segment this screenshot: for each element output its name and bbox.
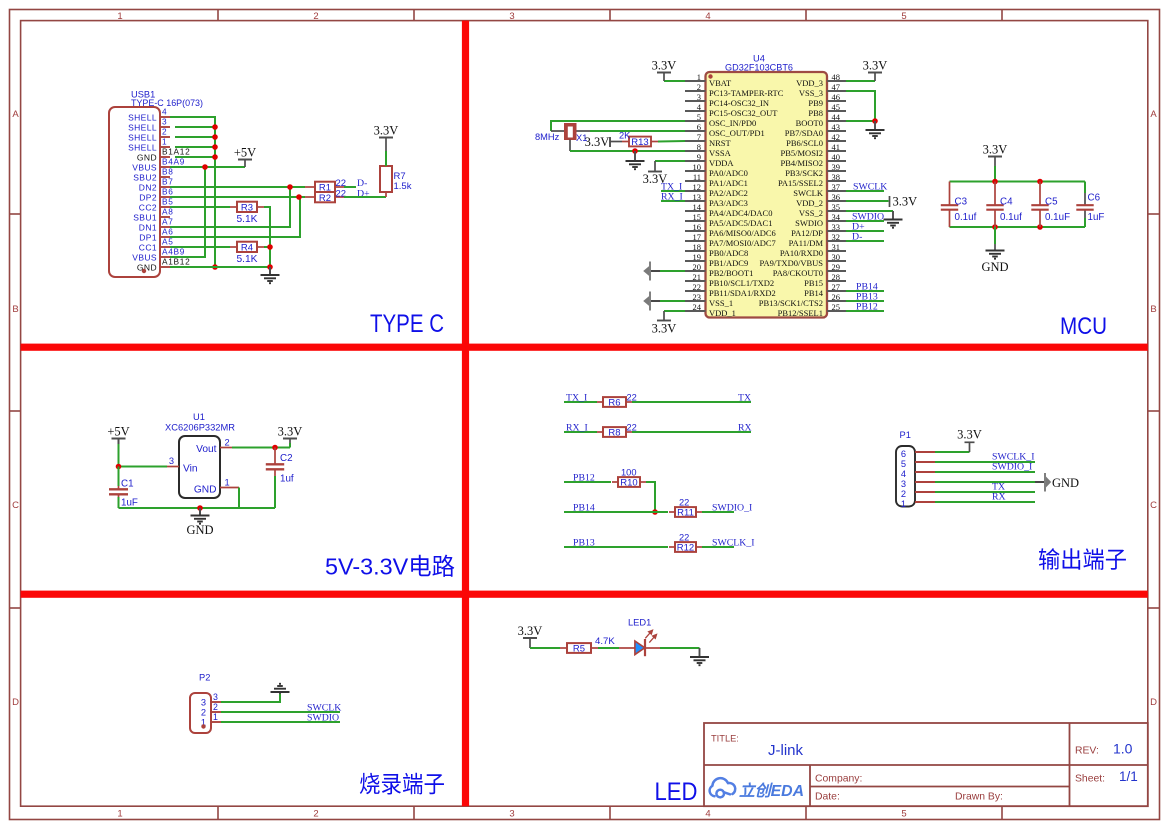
svg-text:PB13: PB13 (573, 538, 595, 549)
junction VBUS (202, 164, 208, 170)
svg-text:PA6/MISO0/ADC6: PA6/MISO0/ADC6 (709, 228, 776, 238)
svg-text:+5V: +5V (107, 425, 129, 439)
junction Vin (116, 464, 122, 470)
svg-text:4: 4 (901, 469, 906, 479)
wire DP2 to R2 (170, 196, 305, 198)
svg-text:+5V: +5V (234, 146, 256, 160)
svg-text:SWDIO_I: SWDIO_I (992, 462, 1032, 473)
svg-text:Drawn By:: Drawn By: (955, 792, 1003, 803)
connector P1 body (896, 446, 915, 507)
svg-text:GND: GND (137, 263, 157, 273)
svg-text:18: 18 (693, 242, 702, 252)
svg-text:GND: GND (186, 523, 213, 537)
net label TX_I (564, 401, 597, 403)
net label RX_I (564, 431, 597, 433)
wire CC2 to R3 (170, 206, 230, 208)
svg-text:1: 1 (162, 137, 167, 147)
svg-text:1.5k: 1.5k (394, 181, 412, 192)
junction PB14/R11 (652, 509, 658, 515)
svg-text:LED: LED (655, 779, 698, 806)
junction cap top C5 (1037, 179, 1043, 185)
net label D- (mcu) (846, 240, 884, 242)
svg-text:SHELL: SHELL (128, 143, 157, 153)
svg-text:OSC_OUT/PD1: OSC_OUT/PD1 (709, 128, 765, 138)
ground (LED) (699, 648, 701, 657)
svg-text:PA15/SSEL2: PA15/SSEL2 (778, 178, 823, 188)
junction SHELL bus pin2 (212, 134, 218, 140)
svg-text:PB4/MISO2: PB4/MISO2 (780, 158, 823, 168)
svg-text:PC15-OSC32_OUT: PC15-OSC32_OUT (709, 108, 778, 118)
svg-text:U1: U1 (193, 412, 205, 422)
svg-text:27: 27 (832, 282, 841, 292)
P1 pin stubs (915, 452, 935, 502)
wire P2 pin3 to gnd (221, 694, 280, 702)
svg-text:7: 7 (697, 132, 701, 142)
svg-text:1: 1 (213, 712, 218, 722)
wire CC1 to R4 (170, 246, 230, 248)
junction DN (287, 184, 293, 190)
wire Vout to 3.3V (232, 447, 290, 449)
svg-text:PC14-OSC32_IN: PC14-OSC32_IN (709, 98, 769, 108)
svg-text:BOOT0: BOOT0 (796, 118, 823, 128)
svg-text:C2: C2 (280, 453, 293, 464)
svg-text:47: 47 (832, 82, 841, 92)
svg-text:3.3V: 3.3V (863, 59, 888, 73)
svg-text:PB14: PB14 (804, 288, 824, 298)
svg-text:1/1: 1/1 (1119, 769, 1138, 784)
U1 pin2 Vout stub (220, 447, 232, 449)
svg-text:Date:: Date: (815, 792, 840, 803)
resistor R10 (612, 481, 618, 483)
P2 pin stubs (211, 702, 221, 722)
svg-text:1: 1 (117, 11, 122, 22)
net label D+ (mcu) (846, 230, 884, 232)
svg-text:3.3V: 3.3V (983, 143, 1008, 157)
svg-text:41: 41 (832, 142, 841, 152)
svg-text:PB0/ADC8: PB0/ADC8 (709, 248, 748, 258)
svg-text:0.1uf: 0.1uf (1000, 212, 1022, 223)
svg-text:17: 17 (693, 232, 702, 242)
svg-text:B: B (12, 304, 18, 315)
ground (cap bank) (994, 227, 996, 244)
svg-text:15: 15 (693, 212, 702, 222)
title block (704, 723, 1148, 806)
capacitor C1 (118, 467, 120, 487)
svg-text:5: 5 (697, 112, 701, 122)
wire BOOT0 (846, 120, 875, 122)
svg-text:REV:: REV: (1075, 746, 1099, 757)
svg-text:CC2: CC2 (139, 203, 157, 213)
wire VSS_3 to BOOT0 (846, 91, 875, 121)
svg-text:SHELL: SHELL (128, 133, 157, 143)
svg-text:A7: A7 (162, 217, 174, 227)
svg-text:R13: R13 (631, 137, 648, 148)
svg-text:5: 5 (901, 459, 906, 469)
svg-text:C6: C6 (1088, 193, 1101, 204)
connector USB1 body (109, 107, 160, 277)
svg-text:3: 3 (901, 479, 906, 489)
resistor R5 (560, 647, 567, 649)
capacitor C2 (274, 448, 276, 465)
capacitor C4 (994, 182, 996, 206)
svg-text:C1: C1 (121, 479, 134, 490)
svg-text:PB1/ADC9: PB1/ADC9 (709, 258, 748, 268)
svg-text:LED1: LED1 (628, 618, 651, 628)
svg-text:PA11/DM: PA11/DM (789, 238, 824, 248)
svg-text:2: 2 (313, 809, 318, 820)
svg-text:SWDIO_I: SWDIO_I (712, 503, 752, 514)
mcu right pin stubs (827, 81, 846, 311)
svg-text:14: 14 (693, 202, 702, 212)
svg-text:烧录端子: 烧录端子 (359, 771, 445, 797)
svg-text:31: 31 (832, 242, 841, 252)
svg-text:SHELL: SHELL (128, 113, 157, 123)
resistor R6 (597, 401, 603, 403)
svg-text:5V-3.3V电路: 5V-3.3V电路 (325, 554, 455, 580)
net label SWDIO (mcu) (846, 220, 884, 222)
ground flag (PB2/BOOT1) (651, 270, 660, 272)
svg-text:3.3V: 3.3V (652, 322, 677, 336)
svg-text:立创EDA: 立创EDA (739, 782, 804, 800)
svg-text:1: 1 (901, 499, 906, 509)
net label PB13 (mcu) (846, 300, 884, 302)
svg-text:4: 4 (705, 11, 710, 22)
svg-text:23: 23 (693, 292, 702, 302)
svg-text:22: 22 (679, 498, 689, 508)
svg-text:1uF: 1uF (1088, 212, 1105, 223)
svg-text:28: 28 (832, 272, 841, 282)
svg-text:1uf: 1uf (280, 474, 294, 485)
svg-text:11: 11 (693, 172, 701, 182)
svg-text:PB9: PB9 (808, 98, 823, 108)
svg-text:输出端子: 输出端子 (1038, 547, 1127, 573)
wire R6 to TX (632, 401, 751, 403)
svg-text:SWDIO: SWDIO (307, 713, 339, 724)
resistor R3 (230, 206, 237, 208)
svg-text:29: 29 (832, 262, 841, 272)
svg-text:PB10/SCL1/TXD2: PB10/SCL1/TXD2 (709, 278, 774, 288)
svg-text:32: 32 (832, 232, 841, 242)
svg-text:C: C (1150, 500, 1157, 511)
svg-text:5: 5 (901, 809, 906, 820)
svg-text:PB2/BOOT1: PB2/BOOT1 (709, 268, 753, 278)
svg-text:3.3V: 3.3V (278, 425, 303, 439)
svg-text:DP1: DP1 (139, 233, 157, 243)
junction VSSA gnd (632, 148, 638, 154)
net label D- (344, 186, 356, 188)
wire GND row (170, 266, 270, 268)
junction SHELL bus pin3 (212, 124, 218, 130)
svg-text:RX: RX (992, 492, 1006, 503)
svg-text:4: 4 (705, 809, 710, 820)
svg-text:P1: P1 (900, 430, 911, 440)
svg-text:2: 2 (901, 489, 906, 499)
net label TX (P1) (935, 491, 1035, 493)
wire cap bank top rail (950, 181, 1086, 183)
power flag 3.3V (VDD_1) (664, 310, 685, 312)
svg-text:PA1/ADC1: PA1/ADC1 (709, 178, 748, 188)
svg-text:GND: GND (981, 260, 1008, 274)
net label PB12 (564, 481, 611, 483)
connector P2 body (190, 693, 211, 733)
svg-text:3.3V: 3.3V (518, 624, 543, 638)
U1 pin3 Vin stub (167, 466, 179, 468)
net label RX (P1) (935, 501, 1035, 503)
svg-text:VDD_1: VDD_1 (709, 308, 736, 318)
svg-text:PB7/SDA0: PB7/SDA0 (785, 128, 823, 138)
ground flag (VSS_1) (651, 300, 660, 302)
USB1 pin stubs (160, 117, 170, 267)
svg-text:3: 3 (509, 11, 514, 22)
svg-text:2: 2 (313, 11, 318, 22)
svg-text:C5: C5 (1045, 197, 1058, 208)
svg-text:R10: R10 (620, 477, 637, 488)
svg-text:5.1K: 5.1K (237, 254, 258, 265)
svg-text:NRST: NRST (709, 138, 732, 148)
U1 pin1 GND stub (220, 487, 239, 489)
svg-text:SWCLK: SWCLK (793, 188, 824, 198)
section divider horizontal lower (21, 591, 1148, 598)
svg-text:2: 2 (213, 702, 218, 712)
svg-text:MCU: MCU (1060, 313, 1107, 340)
svg-text:12: 12 (693, 182, 702, 192)
regulator U1 body (179, 436, 220, 498)
svg-text:100: 100 (621, 468, 637, 478)
ground (P2) (279, 692, 281, 694)
power flag 3.3V (R7) (385, 138, 387, 152)
wire R11 to SWDIO_I (702, 511, 734, 513)
junction DP (296, 194, 302, 200)
svg-text:VSSA: VSSA (709, 148, 732, 158)
svg-text:PA3/ADC3: PA3/ADC3 (709, 198, 748, 208)
logo LCEDA (710, 778, 736, 797)
svg-text:Vin: Vin (183, 464, 198, 475)
svg-text:SHELL: SHELL (128, 123, 157, 133)
svg-text:C3: C3 (955, 197, 968, 208)
net label SWCLK (P2) (221, 711, 340, 713)
junction BOOT0 gnd (872, 118, 878, 124)
svg-text:3: 3 (162, 117, 167, 127)
wire U1 gnd down (238, 488, 240, 509)
svg-text:34: 34 (832, 212, 841, 222)
svg-text:GND: GND (194, 485, 217, 496)
svg-text:TYPE C: TYPE C (370, 311, 444, 338)
svg-text:TX_I: TX_I (566, 393, 587, 404)
ground (BOOT0/VSS_3) (874, 121, 876, 130)
svg-text:OSC_IN/PD0: OSC_IN/PD0 (709, 118, 756, 128)
svg-text:GND: GND (137, 153, 157, 163)
svg-text:46: 46 (832, 92, 841, 102)
svg-text:3.3V: 3.3V (374, 124, 399, 138)
svg-text:PA8/CKOUT0: PA8/CKOUT0 (773, 268, 823, 278)
svg-text:1uF: 1uF (121, 498, 138, 509)
svg-text:2: 2 (162, 127, 167, 137)
resistor R8 (597, 431, 603, 433)
svg-text:PB12: PB12 (573, 473, 595, 484)
svg-text:C4: C4 (1000, 197, 1013, 208)
wire D+ to R7 (344, 196, 386, 198)
svg-text:Company:: Company: (815, 774, 862, 785)
svg-text:9: 9 (697, 152, 701, 162)
svg-text:VBUS: VBUS (132, 253, 157, 263)
wire gnd rail (119, 507, 276, 509)
svg-text:2K: 2K (619, 131, 631, 141)
svg-text:VDDA: VDDA (709, 158, 734, 168)
resistor R13 (622, 141, 629, 143)
svg-text:R12: R12 (677, 542, 694, 553)
wire VBUS net (170, 167, 205, 257)
svg-text:GND: GND (1052, 476, 1079, 490)
svg-text:21: 21 (693, 272, 702, 282)
svg-text:B7: B7 (162, 177, 174, 187)
svg-text:39: 39 (832, 162, 841, 172)
svg-text:43: 43 (832, 122, 841, 132)
net label SWDIO_I (P1) (935, 471, 1035, 473)
svg-text:1.0: 1.0 (1113, 741, 1133, 757)
svg-text:C: C (12, 500, 19, 511)
svg-text:DP2: DP2 (139, 193, 157, 203)
wire NRST (658, 140, 685, 143)
led LED1 (619, 647, 635, 649)
svg-text:3.3V: 3.3V (893, 195, 918, 209)
section divider horizontal upper (21, 344, 1148, 351)
net label SWCLK_I (P1) (935, 461, 1035, 463)
wire R12 to SWCLK_I (702, 546, 734, 548)
svg-text:R5: R5 (573, 643, 585, 654)
ground (USB) (269, 267, 271, 275)
net label PB12 (mcu) (846, 310, 884, 312)
svg-text:PC13-TAMPER-RTC: PC13-TAMPER-RTC (709, 88, 784, 98)
svg-text:3.3V: 3.3V (585, 135, 610, 149)
svg-text:RX_I: RX_I (661, 192, 683, 203)
svg-text:PB11/SDA1/RXD2: PB11/SDA1/RXD2 (709, 288, 776, 298)
svg-text:P2: P2 (199, 673, 210, 683)
svg-text:R8: R8 (608, 427, 620, 438)
svg-text:PB12: PB12 (856, 302, 878, 313)
svg-text:8: 8 (697, 142, 701, 152)
power flag 3.3V (cap bank) (988, 156, 1002, 158)
svg-text:VSS_1: VSS_1 (709, 298, 733, 308)
wire DN2 to R1 (170, 186, 305, 188)
svg-text:26: 26 (832, 292, 841, 302)
junction gnd rail (197, 505, 203, 511)
mcu U4 body (706, 72, 828, 318)
svg-text:D: D (1150, 697, 1157, 708)
junction cap bottom C5 (1037, 224, 1043, 230)
svg-text:2: 2 (201, 708, 206, 718)
svg-text:44: 44 (832, 112, 841, 122)
net label SWCLK (mcu) (846, 190, 884, 192)
svg-text:30: 30 (832, 252, 841, 262)
svg-text:3: 3 (201, 698, 206, 708)
svg-text:40: 40 (832, 152, 841, 162)
ground flag (P1 pin3) (935, 481, 1035, 483)
svg-text:3.3V: 3.3V (652, 59, 677, 73)
svg-text:SWCLK_I: SWCLK_I (712, 538, 754, 549)
svg-text:6: 6 (697, 122, 701, 132)
svg-text:25: 25 (832, 302, 841, 312)
svg-text:SWDIO: SWDIO (795, 218, 823, 228)
wire R8 to RX (632, 431, 751, 433)
svg-text:RX_I: RX_I (566, 423, 588, 434)
svg-text:45: 45 (832, 102, 841, 112)
power flag 3.3V (VDDA) (655, 160, 685, 162)
svg-text:1: 1 (117, 809, 122, 820)
wire R10 down to PB14 (646, 482, 655, 512)
svg-text:PB5/MOSI2: PB5/MOSI2 (780, 148, 823, 158)
ground (U1) (199, 508, 201, 516)
ground (VSS_2) (846, 210, 893, 212)
svg-text:R11: R11 (677, 507, 694, 518)
svg-text:5.1K: 5.1K (237, 214, 258, 225)
wire R4 to gnd row (264, 247, 270, 267)
svg-text:22: 22 (693, 282, 702, 292)
crystal X1 (551, 130, 564, 132)
wire 3.3V to R5 (530, 647, 560, 649)
net label PB13 (564, 546, 668, 548)
power flag +5V (244, 160, 246, 167)
svg-text:PA9/TXD0/VBUS: PA9/TXD0/VBUS (760, 258, 824, 268)
svg-text:3.3V: 3.3V (957, 428, 982, 442)
wire cap bank bottom rail (950, 226, 1086, 228)
svg-text:37: 37 (832, 182, 841, 192)
svg-text:48: 48 (832, 72, 841, 82)
svg-text:TX: TX (738, 393, 751, 404)
svg-text:8MHz: 8MHz (535, 132, 560, 142)
resistor R4 (230, 246, 237, 248)
wire OSC_IN to crystal (551, 121, 685, 131)
led arrows (645, 630, 656, 642)
svg-text:PA4/ADC4/DAC0: PA4/ADC4/DAC0 (709, 208, 772, 218)
svg-text:A: A (12, 109, 19, 120)
svg-text:XC6206P332MR: XC6206P332MR (165, 423, 235, 433)
P2 pin1 marker (201, 724, 205, 728)
svg-text:PA5/ADC5/DAC1: PA5/ADC5/DAC1 (709, 218, 772, 228)
svg-text:PA10/RXD0: PA10/RXD0 (780, 248, 823, 258)
svg-text:Sheet:: Sheet: (1075, 774, 1105, 785)
svg-text:R2: R2 (319, 193, 331, 204)
svg-text:PB6/SCL0: PB6/SCL0 (786, 138, 823, 148)
power flag 3.3V (LED) (523, 637, 537, 639)
svg-text:0.1uf: 0.1uf (955, 212, 977, 223)
svg-text:0.1uF: 0.1uF (1045, 212, 1070, 223)
resistor R2 (305, 196, 315, 198)
svg-text:PB12/SSEL1: PB12/SSEL1 (778, 308, 823, 318)
svg-text:19: 19 (693, 252, 702, 262)
svg-text:PB14: PB14 (573, 503, 595, 514)
svg-text:1: 1 (697, 72, 701, 82)
svg-text:A: A (1150, 109, 1157, 120)
svg-text:4: 4 (162, 107, 167, 117)
net label PB14 (564, 511, 668, 513)
svg-text:16: 16 (693, 222, 702, 232)
svg-text:DN1: DN1 (139, 223, 157, 233)
svg-text:42: 42 (832, 132, 841, 142)
capacitor C3 (949, 182, 951, 206)
capacitor C5 (1039, 182, 1041, 206)
svg-text:35: 35 (832, 202, 841, 212)
svg-text:2: 2 (697, 82, 701, 92)
power flag 3.3V (VDD_3) (846, 80, 875, 82)
net label TX_I (mcu) (661, 190, 685, 192)
mcu pin1 marker (708, 74, 712, 78)
svg-text:SBU1: SBU1 (133, 213, 157, 223)
svg-text:SBU2: SBU2 (133, 173, 157, 183)
svg-text:RX: RX (738, 423, 752, 434)
svg-text:PA7/MOSI0/ADC7: PA7/MOSI0/ADC7 (709, 238, 776, 248)
svg-text:VDD_3: VDD_3 (796, 78, 823, 88)
power flag 3.3V (VBAT) (664, 80, 685, 82)
